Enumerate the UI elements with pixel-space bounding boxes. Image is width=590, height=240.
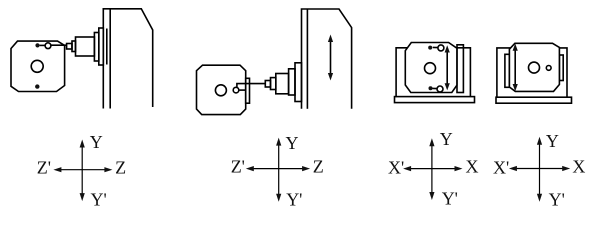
- arrowhead left: [53, 167, 61, 172]
- arrowhead up: [537, 137, 542, 145]
- svg-text:Y': Y': [286, 190, 302, 209]
- spindle nose: [72, 41, 76, 52]
- dot-to-probe link: [40, 44, 46, 46]
- bore hole: [215, 85, 226, 96]
- arrowhead left: [403, 166, 411, 171]
- arrowhead right: [104, 167, 112, 172]
- spindle head (fig1): [67, 28, 107, 65]
- side tab (fig4): [559, 55, 563, 81]
- bore hole: [31, 60, 43, 72]
- flange2: [295, 63, 302, 102]
- mount plate edge on column: [106, 29, 108, 65]
- backplate (fig3): [396, 48, 470, 97]
- column front face line: [109, 9, 111, 109]
- figure 4: table front view with vertical travel arrow: [496, 43, 572, 103]
- arrowhead right: [455, 166, 463, 171]
- datum dot bottom: [429, 86, 433, 90]
- base (fig3): [395, 97, 475, 103]
- arrowhead up: [276, 138, 281, 146]
- datum dot bottom: [35, 84, 39, 88]
- svg-text:Z': Z': [231, 157, 245, 177]
- probe circle: [546, 66, 551, 71]
- arrowhead right: [562, 166, 570, 171]
- column front face line: [306, 9, 308, 109]
- probe-to-tab link: [239, 89, 246, 91]
- probe circle bottom: [437, 86, 443, 92]
- workpiece (fig1): [11, 41, 65, 91]
- boring bar wire (fig2): [237, 84, 265, 88]
- base (fig4): [496, 97, 572, 103]
- axis cross 4 (Y X' X Y'): [509, 137, 570, 202]
- arrowhead left: [246, 166, 254, 171]
- main spindle body: [76, 37, 95, 56]
- svg-text:X: X: [466, 156, 479, 176]
- axis cross 1 (Y Z' Z Y'): [53, 140, 112, 202]
- tool tip: [67, 44, 72, 50]
- flange1: [289, 69, 295, 95]
- column (fig2): [302, 9, 352, 109]
- backplate (fig4): [497, 48, 567, 97]
- svg-text:Z': Z': [37, 158, 51, 178]
- probe circle top: [438, 45, 444, 51]
- svg-text:X: X: [572, 156, 585, 176]
- arrowhead down: [429, 192, 434, 200]
- vertical axis line: [278, 143, 280, 197]
- datum dot top: [428, 46, 432, 50]
- bore hole: [529, 62, 540, 73]
- flange2: [99, 28, 104, 65]
- arrowhead up: [429, 138, 434, 146]
- figure 3: table front view with vertical probe span: [395, 43, 475, 103]
- svg-text:Y: Y: [546, 131, 559, 151]
- left rail (fig4): [505, 54, 510, 87]
- axis cross 3 (Y X' X Y'): [403, 138, 462, 200]
- svg-text:Y: Y: [440, 129, 453, 149]
- vertical travel arrow (fig2): [328, 35, 333, 81]
- svg-text:Y: Y: [286, 133, 299, 153]
- workpiece (fig3): [405, 43, 457, 93]
- horizontal axis line: [514, 168, 565, 170]
- vertical axis line: [431, 144, 433, 195]
- side tab (fig3): [457, 45, 463, 93]
- vertical axis line: [539, 142, 541, 196]
- boring bar wire (fig1): [51, 44, 67, 46]
- spindle head (fig2): [265, 63, 301, 102]
- column (fig1): [103, 9, 152, 109]
- vertical travel arrow (fig4): [514, 49, 516, 87]
- svg-text:Y': Y': [549, 190, 565, 209]
- horizontal axis line: [59, 169, 106, 171]
- side tab: [246, 78, 250, 103]
- svg-text:Y: Y: [90, 132, 103, 152]
- probe circle: [45, 43, 51, 49]
- axis cross 2 (Y Z' Z Y'): [246, 138, 310, 202]
- svg-text:Y': Y': [442, 189, 458, 209]
- main spindle body: [276, 74, 289, 94]
- arrowhead down: [537, 194, 542, 202]
- arrowhead right: [302, 166, 310, 171]
- svg-text:Y': Y': [91, 190, 107, 209]
- flange1: [94, 33, 98, 62]
- probe circle: [233, 87, 239, 93]
- arrowhead up: [80, 140, 85, 148]
- arrowhead down: [80, 193, 85, 201]
- arrowhead down: [276, 194, 281, 202]
- horizontal axis line: [409, 168, 458, 170]
- tool tip: [265, 81, 270, 88]
- spindle nose: [271, 78, 276, 90]
- svg-text:Z: Z: [115, 158, 126, 178]
- arrowhead left: [509, 166, 517, 171]
- horizontal axis line: [251, 168, 305, 170]
- workpiece (fig2): [197, 65, 250, 114]
- svg-text:X': X': [388, 158, 404, 178]
- svg-text:Z: Z: [313, 157, 324, 177]
- svg-text:X': X': [493, 158, 509, 178]
- vertical span arrow (fig3): [446, 51, 448, 86]
- vertical axis line: [81, 145, 83, 196]
- datum dot top: [35, 43, 39, 47]
- bore hole: [425, 63, 436, 74]
- workpiece (fig4): [509, 43, 559, 91]
